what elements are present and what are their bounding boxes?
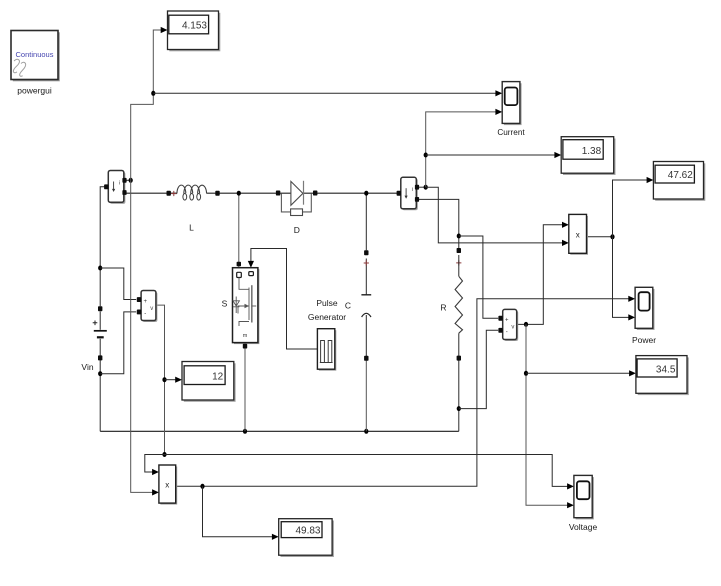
svg-text:-: - (506, 329, 508, 335)
wire pulse generator to mosfet gate (251, 249, 318, 350)
wire battery plus tap to Vin voltmeter plus input (100, 268, 136, 300)
voltage measurement V2 (498, 309, 518, 341)
arrow into product X1 input 1 (562, 222, 569, 228)
svg-text:47.62: 47.62 (668, 170, 693, 181)
svg-text:1.38: 1.38 (582, 146, 602, 157)
arrow into Current scope input 2 (495, 109, 502, 115)
wire to display 34.5 (526, 372, 632, 374)
wire load current i to product X1 input 2 (426, 187, 565, 243)
wire load current output to resistor R top (416, 199, 459, 248)
node Vin signal bottom branch (162, 452, 166, 457)
arrow into display 1.38 (554, 152, 561, 158)
current measurement I1 (104, 171, 127, 204)
wire source current i down to product X2 input 2 (131, 180, 156, 492)
arrow into Power scope input 1 (628, 296, 635, 302)
node current scope branch (151, 91, 155, 96)
display Iin value 4.153 (168, 11, 221, 51)
voltage measurement V1 (137, 291, 158, 323)
svg-text:L: L (189, 223, 194, 233)
current measurement I2 (397, 177, 420, 210)
wire resistor top tap to load voltmeter plus input (459, 236, 498, 318)
svg-text:Voltage: Voltage (569, 522, 598, 532)
arrow into display 4.153 (161, 27, 168, 33)
wire to display 12 (165, 379, 179, 381)
arrow into display 34.5 (629, 370, 636, 376)
wire battery plus up to source current measurement (100, 187, 106, 306)
svg-text:+: + (144, 299, 148, 305)
svg-text:4.153: 4.153 (182, 21, 207, 32)
product X2 (159, 465, 177, 505)
wire source current i output stub (124, 179, 131, 181)
scope Current (497, 82, 525, 137)
node source current i branch (129, 178, 133, 183)
node display 12 branch (162, 377, 166, 382)
node load current i branch (424, 185, 428, 190)
node resistor top junction (457, 234, 461, 239)
svg-text:34.5: 34.5 (656, 365, 676, 376)
arrow into Voltage scope input 2 (567, 502, 574, 508)
pulse generator (308, 298, 346, 371)
wire load voltage down to Voltage scope input 2 (526, 324, 570, 505)
wire resistor bottom tap to load voltmeter minus input (459, 330, 498, 408)
svg-text:powergui: powergui (17, 86, 52, 96)
wire battery minus down to bottom rail (99, 360, 101, 431)
wire Vin voltmeter output down (156, 305, 165, 454)
svg-text:Power: Power (632, 335, 656, 345)
node display 1.38 branch (424, 153, 428, 158)
node mosfet drain junction (237, 191, 241, 196)
node load voltage branch (524, 322, 528, 327)
wire capacitor bottom to rail (365, 361, 367, 432)
wire resistor bottom to rail corner (458, 360, 460, 431)
diode D (276, 181, 318, 235)
node battery minus junction (98, 371, 102, 376)
wire product X1 output (587, 236, 613, 238)
svg-text:m: m (243, 333, 248, 339)
powergui block (11, 31, 60, 96)
svg-text:49.83: 49.83 (295, 526, 320, 537)
wire diode to load current measurement (304, 192, 399, 194)
svg-text:C: C (345, 301, 351, 311)
wire to display 1.38 (426, 154, 558, 156)
capacitor C (345, 250, 371, 361)
node battery plus junction (98, 266, 102, 271)
node capacitor bottom on rail (364, 429, 368, 434)
wire product X2 output to Power scope input 1 (176, 299, 632, 487)
wire bottom ground rail (100, 430, 459, 432)
wire main top rail segment battery to inductor (124, 192, 177, 194)
svg-text:v: v (150, 306, 153, 312)
wire battery minus tap to Vin voltmeter minus input (100, 312, 136, 374)
svg-text:Generator: Generator (308, 312, 346, 322)
svg-text:i: i (412, 187, 413, 193)
scope Power (632, 287, 656, 345)
arrow into display 12 (175, 377, 182, 383)
node resistor bottom junction (457, 406, 461, 411)
display Pout value 47.62 (653, 162, 705, 201)
product X1 (569, 214, 588, 254)
wire to Current scope input 1 (153, 92, 498, 94)
arrow into mosfet gate (248, 261, 254, 268)
svg-text:R: R (440, 303, 446, 313)
wire Vin signal jog to product X2 input 1 (145, 455, 165, 473)
wire source current i up to display 4.153 (131, 30, 164, 180)
display Iout value 1.38 (561, 137, 615, 175)
inductor L (167, 185, 220, 232)
svg-text:S: S (222, 299, 228, 309)
wire capacitor top branch (365, 193, 367, 250)
svg-text:x: x (576, 231, 580, 240)
wire X2 output down to display 49.83 (203, 486, 276, 537)
wire load current i output stub (416, 186, 425, 188)
svg-text:Current: Current (497, 128, 525, 137)
arrow into product X2 input 2 (152, 489, 159, 495)
wire load voltmeter output to product X1 input 1 (517, 225, 565, 325)
wire X1 output up to display 47.62 (613, 180, 650, 237)
svg-text:x: x (165, 481, 169, 490)
svg-text:Vin: Vin (81, 362, 93, 372)
svg-text:Pulse: Pulse (316, 298, 338, 308)
scope Voltage (569, 475, 598, 531)
node mosfet source on rail (243, 429, 247, 434)
svg-text:D: D (294, 225, 300, 235)
wire X1 output down to Power scope input 2 (613, 237, 632, 318)
display Vin value 12 (182, 362, 236, 402)
arrow into Voltage scope input 1 (567, 483, 574, 489)
svg-text:-: - (144, 311, 146, 317)
node product X1 output branch (610, 234, 614, 239)
wire load current i up to Current scope input 2 (426, 112, 499, 187)
wire Vin signal to Voltage scope input 1 (165, 455, 571, 487)
arrow into display 49.83 (272, 534, 279, 540)
WIRES-LAYER (98, 27, 653, 540)
svg-text:v: v (511, 325, 514, 331)
arrow into display 47.62 (647, 177, 654, 183)
mosfet S (222, 262, 260, 349)
DC source Vin (81, 306, 106, 372)
wire mosfet drain from main rail (238, 193, 240, 268)
resistor R (440, 248, 462, 361)
arrow into product X1 input 2 (562, 240, 569, 246)
svg-text:12: 12 (212, 371, 224, 382)
wire inductor to diode (207, 192, 291, 194)
svg-text:+: + (505, 318, 509, 324)
arrow into Power scope input 2 (628, 314, 635, 320)
arrow into product X2 input 1 (152, 469, 159, 475)
svg-text:Continuous: Continuous (16, 50, 54, 59)
svg-text:i: i (119, 181, 120, 187)
display Pin value 49.83 (279, 519, 334, 557)
wire mosfet source to bottom rail (244, 345, 246, 431)
node display 34.5 branch (524, 371, 528, 376)
arrow into Current scope input 1 (495, 90, 502, 96)
display Vout value 34.5 (636, 356, 689, 396)
node capacitor top junction (364, 191, 368, 196)
node product X2 output branch (200, 484, 204, 489)
